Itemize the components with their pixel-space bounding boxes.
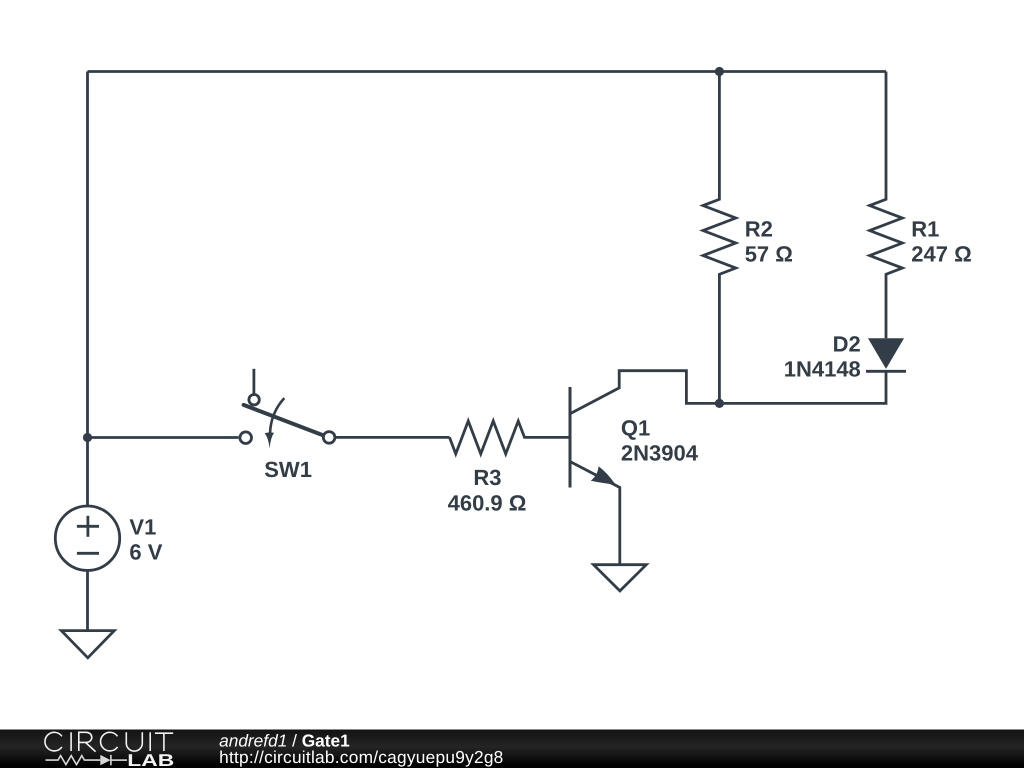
svg-text:6 V: 6 V (129, 540, 162, 565)
svg-text:R3: R3 (473, 465, 501, 490)
svg-text:247 Ω: 247 Ω (911, 241, 971, 266)
svg-text:V1: V1 (129, 515, 156, 540)
svg-text:D2: D2 (833, 332, 861, 357)
svg-text:Q1: Q1 (621, 416, 650, 441)
svg-text:1N4148: 1N4148 (784, 357, 861, 382)
svg-text:2N3904: 2N3904 (621, 441, 699, 466)
svg-text:LAB: LAB (127, 751, 174, 768)
svg-text:R1: R1 (911, 216, 939, 241)
svg-text:57 Ω: 57 Ω (745, 241, 793, 266)
svg-text:R2: R2 (745, 216, 773, 241)
svg-text:460.9 Ω: 460.9 Ω (448, 490, 527, 515)
svg-text:SW1: SW1 (264, 457, 312, 482)
svg-text:http://circuitlab.com/cagyuepu: http://circuitlab.com/cagyuepu9y2g8 (219, 747, 503, 767)
